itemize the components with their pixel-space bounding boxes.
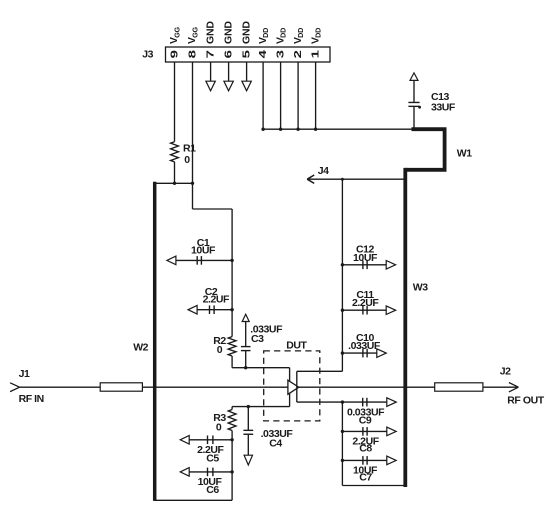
wire microstrip to J2 [483, 386, 519, 388]
svg-text:C3: C3 [251, 333, 264, 345]
label C13 [431, 91, 456, 114]
connector J3 reference label [142, 49, 153, 61]
svg-text:J1: J1 [19, 368, 30, 380]
pin number 3 [274, 50, 286, 58]
wire R2 node to DUT input [232, 367, 290, 369]
svg-text:RF OUT: RF OUT [507, 395, 544, 407]
wire pin 9 to R1 [174, 62, 176, 142]
capacitor C1 [167, 256, 234, 265]
resistor R1 [171, 142, 179, 162]
svg-text:5: 5 [240, 50, 252, 58]
junction pin 2 bus [296, 128, 299, 131]
label J1 [19, 368, 30, 380]
wire rail C1-C2 [231, 260, 233, 309]
capacitor C8 [341, 427, 397, 436]
connector J3 body [166, 47, 331, 62]
junction R1 bottom [173, 182, 176, 185]
label R1 [183, 143, 196, 166]
capacitor C2 [188, 305, 234, 314]
wire rail C2-R2 [231, 310, 233, 337]
junction J4 rail [341, 178, 344, 181]
svg-text:7: 7 [204, 50, 216, 58]
label C9 [347, 406, 385, 426]
label W2 [133, 342, 148, 354]
svg-text:DUT: DUT [286, 339, 307, 351]
label C1 [191, 237, 216, 257]
svg-text:0: 0 [217, 344, 223, 356]
net label VGG on pin [186, 26, 199, 44]
svg-text:C4: C4 [269, 438, 282, 450]
svg-text:33UF: 33UF [431, 101, 456, 113]
label RF OUT [507, 395, 544, 407]
wire R3 node to DUT input [232, 406, 290, 408]
pin number 8 [186, 50, 198, 58]
ground symbol at pin 5 [242, 62, 251, 91]
capacitor C11 [341, 306, 396, 315]
net label VDD on pin [309, 28, 322, 44]
net label GND on pin [222, 21, 234, 44]
svg-text:RF IN: RF IN [19, 393, 44, 405]
label W1 [457, 148, 472, 160]
VDD bus wire [263, 128, 412, 130]
wire pin 4 to VDD bus [262, 62, 264, 129]
label J4 [318, 165, 329, 177]
microstrip RF OUT [435, 383, 483, 391]
svg-text:J3: J3 [142, 49, 153, 61]
thick wire W3 [403, 168, 407, 487]
label C3 [250, 324, 283, 346]
wire pin 1 to VDD bus [315, 62, 317, 129]
svg-text:C7: C7 [359, 471, 372, 483]
svg-text:0: 0 [216, 422, 222, 434]
wire rail to DUT output [297, 353, 343, 371]
capacitor C10 [341, 349, 387, 358]
wire rail to bottom [231, 472, 233, 500]
svg-text:J2: J2 [500, 366, 511, 378]
capacitor C3 [241, 314, 251, 369]
svg-text:2: 2 [291, 50, 303, 58]
wire R2 to input line [231, 356, 233, 368]
svg-text:1: 1 [309, 50, 321, 58]
svg-text:C8: C8 [359, 442, 372, 454]
capacitor C5 [180, 436, 234, 445]
pin number 9 [168, 50, 180, 58]
net label GND on pin [240, 21, 252, 44]
capacitor C12 [341, 261, 396, 270]
capacitor C9 [297, 398, 396, 407]
label RF IN [19, 393, 44, 405]
wire R1 to node [174, 162, 176, 183]
wire DUT output vertical [296, 371, 298, 402]
wire amplifier output to microstrip [299, 386, 435, 388]
net label VDD on pin [257, 28, 270, 44]
label DUT [286, 339, 307, 351]
svg-text:10UF: 10UF [353, 252, 378, 264]
net label GND on pin [204, 21, 216, 44]
svg-text:GND: GND [222, 21, 234, 44]
svg-text:C9: C9 [359, 414, 372, 426]
resistor R3 [228, 407, 236, 431]
svg-text:R1: R1 [183, 143, 196, 155]
wire elbow to left rail [193, 209, 233, 260]
svg-text:10UF: 10UF [191, 244, 216, 256]
capacitor C4 [243, 405, 253, 465]
svg-text:W3: W3 [413, 282, 428, 294]
DUT dashed outline [264, 351, 320, 421]
label C11 [352, 289, 379, 309]
svg-text:8: 8 [186, 50, 198, 58]
ground symbol at pin 6 [224, 62, 233, 91]
capacitor C7 [341, 456, 397, 465]
thick wire W2 [153, 182, 157, 501]
svg-text:.033UF: .033UF [348, 340, 381, 352]
amplifier U1 triangle [288, 380, 299, 394]
wire pin 2 to VDD bus [297, 62, 299, 129]
svg-text:C6: C6 [206, 484, 219, 496]
ground symbol at pin 7 [206, 62, 215, 91]
capacitor C6 [180, 468, 234, 477]
microstrip RF IN [100, 383, 142, 391]
wire W2 top to pin8 [155, 182, 193, 184]
connector J2 arrow [509, 383, 519, 392]
junction pin 1 bus [314, 128, 317, 131]
wire R3 to C5 [231, 431, 233, 440]
pin number 6 [222, 50, 234, 58]
thick wire W1 [405, 129, 444, 170]
pin number 1 [309, 50, 321, 58]
net label VGG on pin [168, 26, 181, 44]
label C12 [353, 244, 378, 264]
pin number 4 [256, 49, 268, 58]
wire right rail lower [342, 402, 405, 485]
label C5 [197, 444, 224, 464]
svg-text:W2: W2 [133, 342, 148, 354]
wire DUT input vertical [289, 368, 291, 407]
label C10 [348, 332, 381, 352]
label W3 [413, 282, 428, 294]
svg-text:0: 0 [184, 154, 190, 166]
net label VDD on pin [274, 28, 287, 44]
wire right rail upper [341, 179, 343, 353]
label C2 [203, 286, 230, 306]
svg-text:2.2UF: 2.2UF [203, 294, 230, 306]
label C4 [261, 428, 294, 450]
junction pin 3 bus [279, 128, 282, 131]
svg-text:3: 3 [274, 50, 286, 58]
junction pin8 node [191, 182, 194, 185]
wire pin 3 to VDD bus [280, 62, 282, 129]
wire rail C5-C6 [231, 440, 233, 472]
label J2 [500, 366, 511, 378]
wire pin 8 down [192, 62, 194, 209]
label C6 [198, 476, 223, 496]
svg-text:W1: W1 [457, 148, 472, 160]
svg-text:4: 4 [256, 49, 268, 58]
pin number 2 [291, 50, 303, 58]
resistor R2 [228, 337, 236, 356]
pin number 7 [204, 50, 216, 58]
label R2 [213, 335, 226, 356]
svg-text:GND: GND [204, 21, 216, 44]
junction pin 4 bus corner [261, 128, 264, 131]
wire bottom left horizontal [155, 499, 232, 501]
svg-text:J4: J4 [318, 165, 329, 177]
svg-text:C5: C5 [206, 452, 219, 464]
wire microstrip to amplifier input [142, 386, 288, 388]
svg-text:9: 9 [168, 50, 180, 58]
label R3 [213, 412, 226, 434]
connector J1 arrow [10, 383, 20, 392]
label C8 [352, 435, 379, 454]
svg-text:2.2UF: 2.2UF [352, 297, 379, 309]
net label VDD on pin [292, 28, 305, 44]
connector J4 arrow [307, 175, 405, 183]
svg-text:6: 6 [222, 50, 234, 58]
capacitor C13 [408, 73, 421, 129]
wire J1 to microstrip [20, 386, 101, 388]
label C7 [353, 464, 378, 483]
pin number 5 [240, 50, 252, 58]
svg-text:GND: GND [240, 21, 252, 44]
